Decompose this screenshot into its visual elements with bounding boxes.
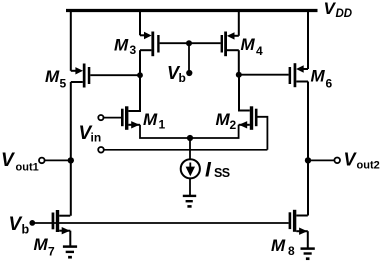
svg-text:M: M [143,110,158,129]
wire M5 gate to node A [90,74,140,76]
svg-text:7: 7 [48,245,55,259]
transistor M8 (NMOS) [289,210,308,235]
wire Vin- line to M2 gate [104,149,267,151]
node A junction dot [137,72,143,78]
svg-text:2: 2 [230,118,237,132]
svg-text:M: M [241,35,256,54]
svg-text:6: 6 [326,77,333,91]
transistor M7 (NMOS) [52,210,71,234]
wire M3 source to rail [139,9,141,35]
current source ISS [181,159,200,178]
wire M6 drain to M8 drain (right output rail) [307,82,309,216]
wire M3 drain to node A [139,50,141,75]
output terminal Vout1 [39,158,45,164]
wire Vb stub to gates [188,43,190,72]
svg-text:M: M [114,36,129,55]
junction Vout2 node [305,157,311,163]
transistor M4 (PMOS) [221,32,239,57]
wire M8 source to ground [307,231,309,248]
wire M5 source to rail [70,9,72,71]
wire M4 source to rail [238,9,240,36]
wire M3/M4 gates joined [160,42,221,44]
svg-text:V: V [1,150,15,171]
node B junction dot [236,72,242,78]
input terminal Vin+ [98,115,103,120]
input terminal Vin- [98,147,104,153]
output terminal Vout2 [334,158,340,164]
wire M6 source to rail [307,9,309,69]
ground (M8 source) [301,249,315,259]
ground (M7 source) [63,247,77,258]
svg-text:M: M [271,236,286,255]
svg-text:b: b [179,71,186,85]
ground (tail current source) [183,196,196,207]
svg-text:4: 4 [256,44,263,58]
svg-text:1: 1 [159,118,166,132]
wire M5 drain to M7 drain (left output rail) [70,82,72,216]
svg-text:out1: out1 [16,162,39,174]
transistor M5 (PMOS) [71,64,91,88]
wire Vin+ to M1 gate [104,117,121,119]
wire node B to M2 drain [239,75,250,111]
transistor M3 (PMOS) [140,32,160,57]
junction tail node [187,135,193,141]
VDD power rail [66,9,318,12]
transistor M1 (NMOS) [121,106,140,130]
wire Vout2 node to terminal [308,159,334,161]
svg-text:M: M [311,67,326,86]
wire tail node to ISS [189,138,191,160]
wire Vout1 terminal to left rail [45,159,71,161]
wire M2 gate to Vin- line [258,117,268,150]
svg-text:b: b [22,223,30,237]
svg-text:M: M [45,67,60,86]
node Vb terminal dot [186,70,192,76]
svg-text:SS: SS [214,166,230,180]
svg-text:8: 8 [288,244,295,258]
transistor M6 (PMOS) [289,63,308,87]
junction Vout1 node [68,157,74,163]
svg-text:V: V [9,214,23,235]
svg-text:out2: out2 [357,160,380,172]
wire M4 drain to node B [238,50,240,74]
wire M7 source to ground [69,231,71,246]
svg-text:V: V [344,150,358,170]
svg-text:M: M [216,110,231,129]
svg-text:in: in [91,131,102,145]
svg-text:DD: DD [336,8,353,20]
svg-text:M: M [34,235,49,254]
wire Vb to M7 and M8 gates [32,222,288,224]
wire M2 source to tail node [190,125,239,138]
transistor M2 (NMOS) [239,106,258,130]
junction gates of M3 M4 [186,40,192,46]
svg-text:3: 3 [130,43,137,57]
svg-text:5: 5 [60,77,67,91]
wire node A to M1 drain [129,75,141,111]
wire M6 gate to node B [239,74,289,76]
node Vb bottom terminal dot [29,220,35,226]
wire M1 source to tail node [140,125,190,138]
wire ISS to ground [189,178,191,195]
